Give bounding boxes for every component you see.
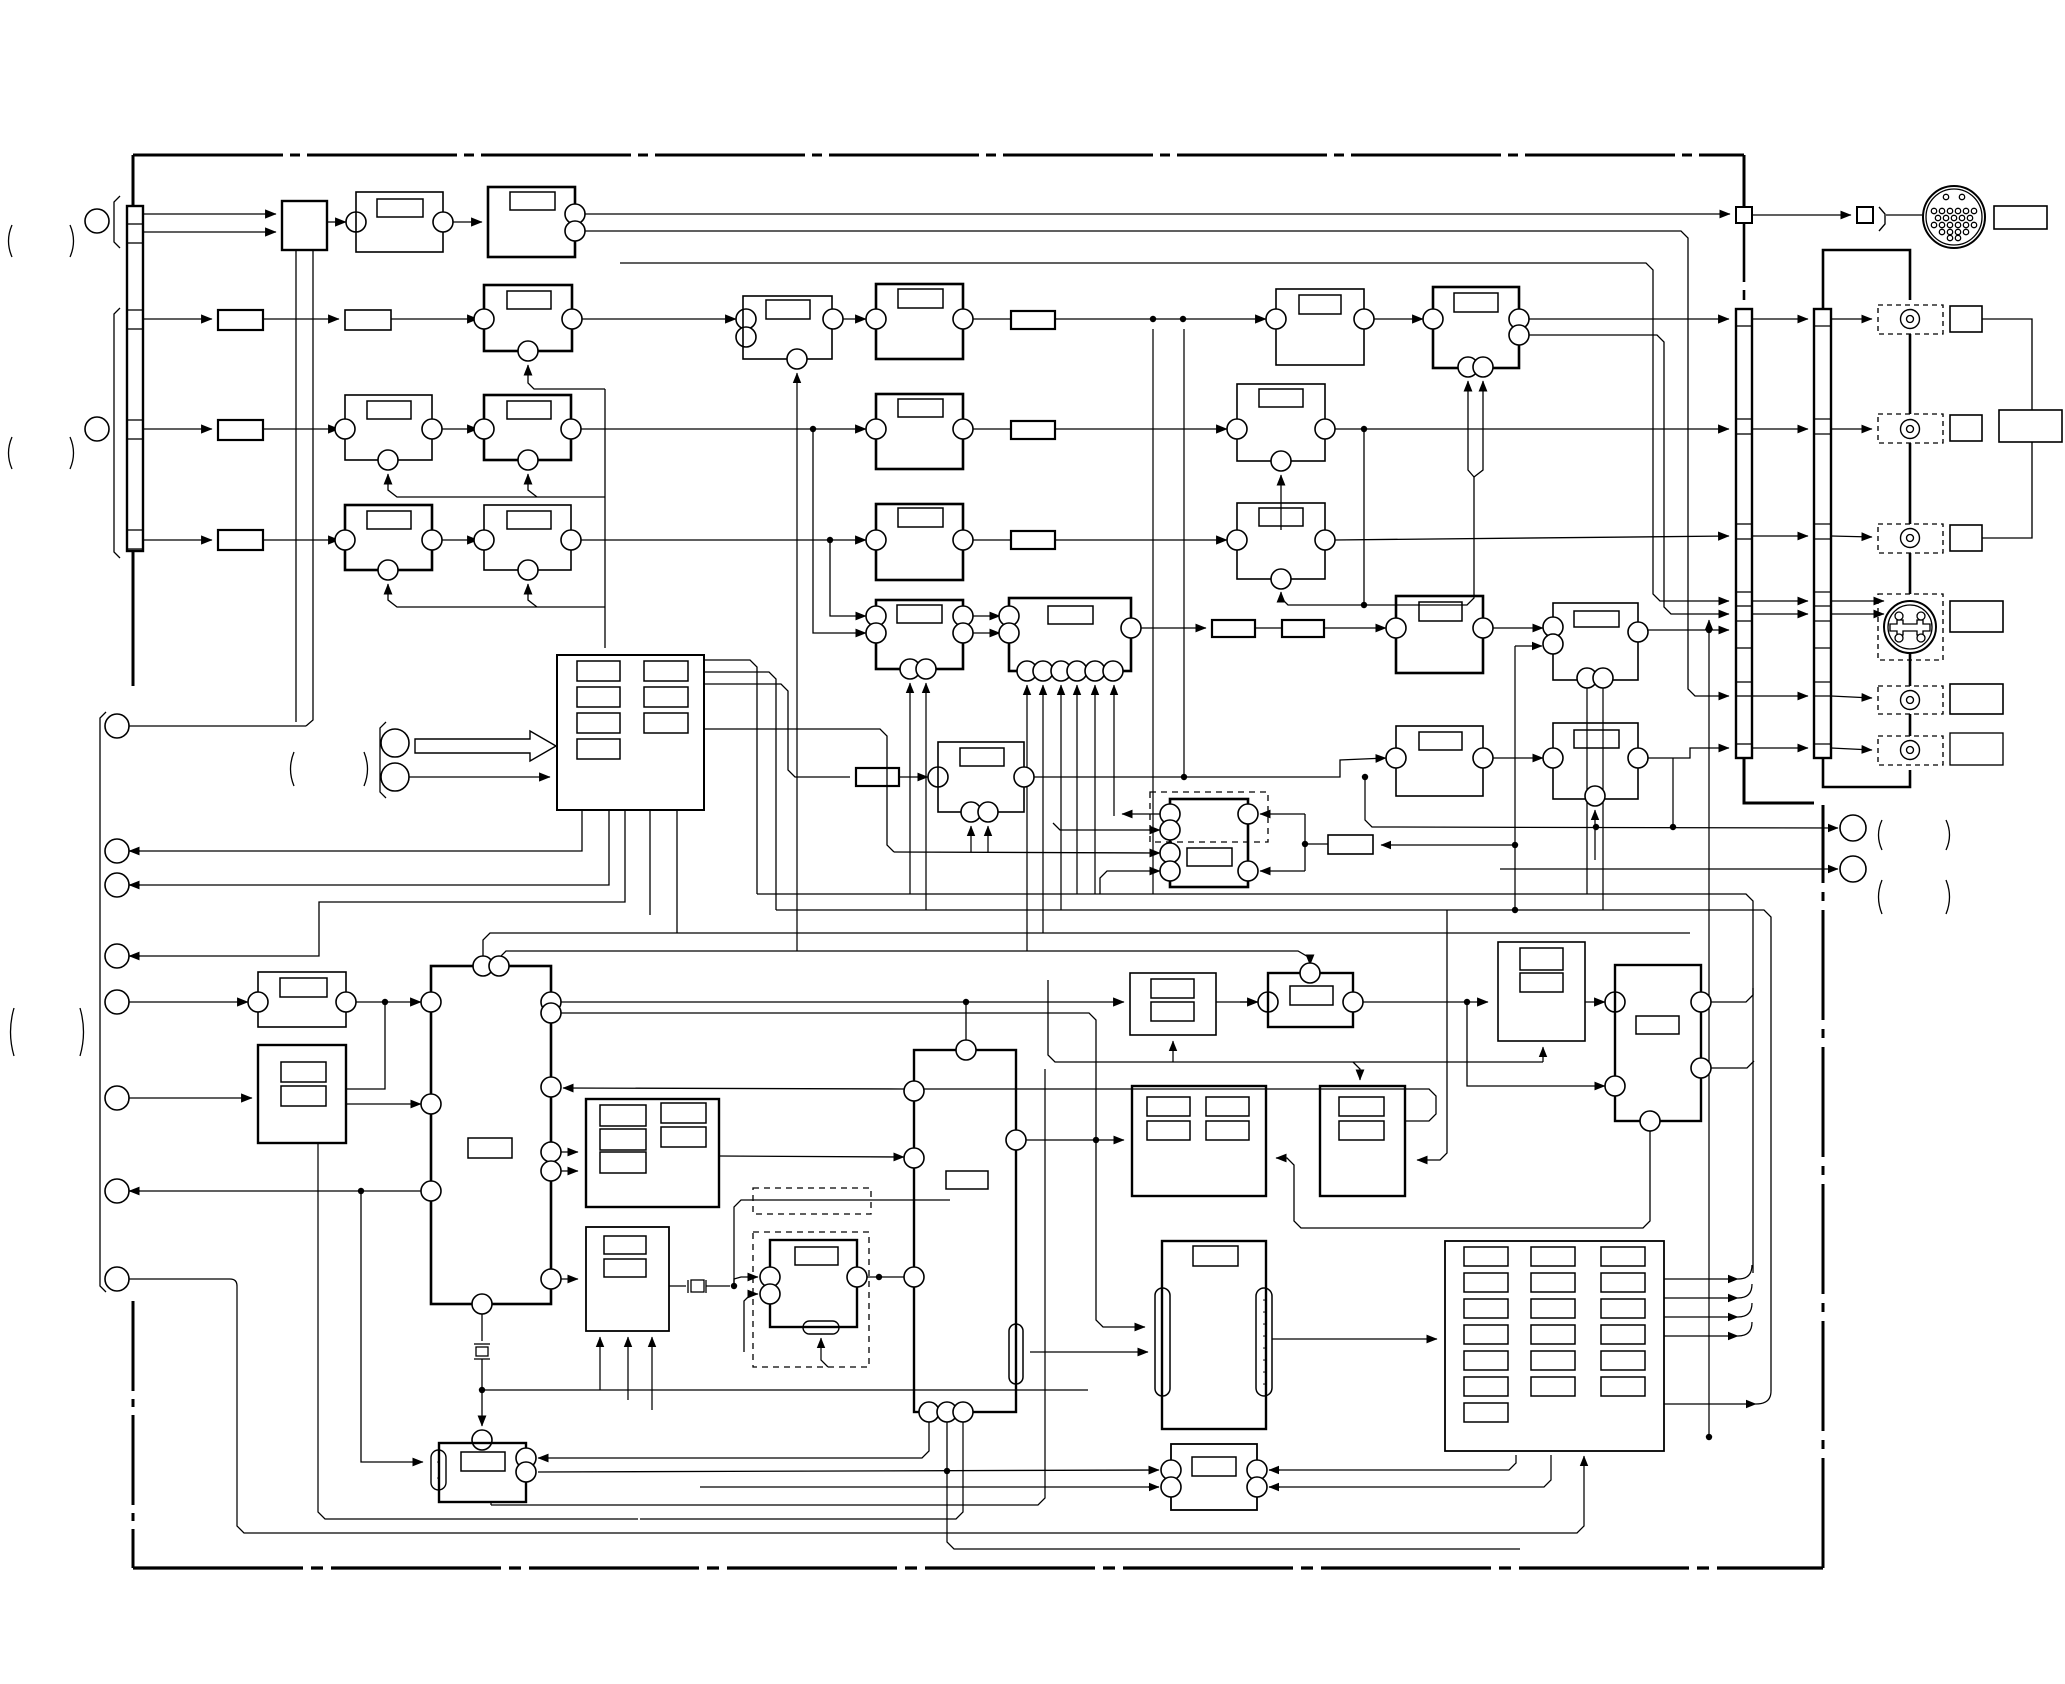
junction dot row3 right (1361, 426, 1367, 432)
wire y1002 cont (1216, 1001, 1258, 1003)
paren label bottom-left (11, 1008, 15, 1056)
wire E1 to filter (973, 428, 1011, 430)
wire tall r4 to GB (561, 1151, 578, 1153)
heavy jack bus bottom (1744, 758, 1814, 803)
pin circle C3 out2 (1509, 325, 1529, 345)
bracket connector group main (114, 308, 120, 558)
pin circle DB2 l2 (760, 1284, 780, 1304)
pin circle G4 out (1628, 622, 1648, 642)
pin circle B2 out (1354, 309, 1374, 329)
wire D1 to D2 (442, 428, 478, 430)
wire K2 out (1363, 1001, 1488, 1003)
wire bar2 to jack5 (1831, 748, 1872, 750)
pin circle F2 out (561, 530, 581, 550)
pin circle DB2 out (847, 1267, 867, 1287)
PCB outline border left upper (132, 155, 135, 206)
wire cpu pin5 bus (676, 810, 678, 933)
dashed jack4 box (1878, 686, 1943, 714)
wire G4 bottom a down (1586, 688, 1588, 894)
wire into KB pill left b (1030, 1351, 1148, 1353)
wire C1 bottom feed (796, 373, 798, 951)
pin circle K2 out (1343, 992, 1363, 1012)
wire y852 head (894, 852, 1160, 853)
pin circle F1 in (335, 530, 355, 550)
wire svideo C vertical (1708, 630, 1710, 1437)
small box row4 (218, 530, 263, 550)
pin circle tall right 2 (541, 1003, 561, 1023)
pill KB right (1256, 1288, 1272, 1396)
heavy link4 (1909, 653, 1912, 686)
pin circle B1 out (562, 309, 582, 329)
pin circle T2 out2 (1691, 1058, 1711, 1078)
edge connector CN left bar (127, 206, 143, 551)
block arrow key data (415, 731, 556, 761)
pin circle G6 out (1473, 748, 1493, 768)
heavy link1 (1909, 334, 1912, 414)
vertical wires below splitter (295, 250, 297, 722)
pin circle in8 (105, 1267, 129, 1291)
dashed svideo box (1878, 594, 1943, 660)
pin circle ant in (85, 417, 109, 441)
heavy jack bus top (1823, 250, 1910, 309)
pill J1 left (431, 1450, 446, 1490)
label box DIN (1994, 206, 2047, 229)
pin circle BX bottom a (919, 1402, 939, 1422)
pin circle G2 out (1121, 618, 1141, 638)
wire (263, 318, 339, 320)
pin circle BX bottom c (953, 1402, 973, 1422)
wire bar2 to jack1 (1831, 318, 1872, 320)
pin circle tall left in (421, 992, 441, 1012)
label box jack5 (1950, 733, 2003, 765)
pin circle K2 top (1300, 963, 1320, 983)
wire tall out2 y1013 (561, 1013, 1145, 1327)
label box wide right (1999, 410, 2062, 442)
block CPU system control (557, 655, 704, 810)
wire H2 loop (346, 1002, 385, 1089)
small box head bias (1328, 835, 1373, 854)
bar1 edge connector (1736, 309, 1752, 758)
RF splitter block (282, 201, 327, 250)
wire x947 drop (946, 1422, 948, 1471)
block TALL2 (1615, 965, 1701, 1121)
pin circle D2 in (474, 419, 494, 439)
paren label audio out b (1879, 880, 1883, 914)
pin circle C3 in (1423, 309, 1443, 329)
pin circle in7 (105, 1179, 129, 1203)
pin circle head l4 (1160, 861, 1180, 881)
pin circle E3 in (866, 530, 886, 550)
RCA jack 5 (1901, 741, 1920, 760)
wire row1 b (143, 231, 276, 233)
block A1 video amp (356, 192, 443, 252)
small box row2 b (345, 310, 391, 330)
wire from dot row4 to G1 (830, 540, 866, 616)
pin circle B1 in (474, 309, 494, 329)
block C3 bold (1433, 287, 1519, 368)
wire y1062 bus (1048, 980, 1543, 1062)
bracket key group (380, 722, 386, 798)
pin circle BX right1 (1006, 1130, 1026, 1150)
wire in6 to H2 (129, 1097, 252, 1099)
wire y605 to C3 bottom (1364, 477, 1474, 605)
pin circle T2 bottom (1640, 1111, 1660, 1131)
matrix outputs right (1664, 1278, 1738, 1280)
label box jack4 (1950, 684, 2003, 714)
wire into W1 bottom a (970, 826, 972, 852)
wire C2 to filter (973, 318, 1011, 320)
wire into head l4 (1100, 871, 1160, 894)
wire T2 out1 (1711, 988, 1753, 1002)
small box row3 filter (1011, 421, 1055, 439)
wire row4 (263, 539, 339, 541)
block D1 row3 (345, 395, 432, 460)
wire KB out (1272, 1338, 1437, 1340)
RCA jack 3 (1901, 529, 1920, 548)
small box row2 filter (1011, 311, 1055, 329)
block KB tape path (1162, 1241, 1266, 1429)
pin circle ctl2 (105, 839, 129, 863)
RCA jack 4 (1901, 691, 1920, 710)
pin circle head r1 (1238, 804, 1258, 824)
wire A2 out2 long (585, 231, 1729, 696)
PCB outline border right (chain) (1822, 805, 1825, 1568)
pin circle ctl4 (105, 944, 129, 968)
label box jack1 (1950, 306, 1982, 332)
wire tall r6 to JB2 (561, 1278, 578, 1280)
pin circle K2 in (1258, 992, 1278, 1012)
pin circle tall top a (473, 956, 493, 976)
wire row4 to E4 (1055, 539, 1227, 541)
pin circle BB l2 (1161, 1477, 1181, 1497)
pin circle G4 in b (1543, 634, 1563, 654)
wire tall in y1087 (563, 1088, 904, 1089)
block G6 (1396, 726, 1483, 796)
wire cpu tuner ctl (129, 725, 306, 727)
wire E3 to filter (973, 539, 1011, 541)
heavy link2 (1909, 443, 1912, 524)
wire head right dot (1302, 841, 1308, 847)
pin circle E3 out (953, 530, 973, 550)
block GB grid (586, 1099, 719, 1207)
RCA jack 1 (1901, 310, 1920, 329)
pin circle G3 out (1473, 618, 1493, 638)
pin circle DB2 l1 (760, 1267, 780, 1287)
pin circle BX left2 (904, 1148, 924, 1168)
wire to DB2 in a (734, 1277, 758, 1286)
block G3 bold (1396, 596, 1483, 673)
wire to DIN (1886, 214, 1922, 216)
wire row3 from bar (143, 428, 212, 430)
pin circle tall left 3 (421, 1181, 441, 1201)
wire bias in from G4 branch (1514, 646, 1516, 910)
wire audio out line y827 (1365, 777, 1838, 828)
pin circle D2 out (561, 419, 581, 439)
block E3 bold (876, 504, 963, 580)
wire K4 out (1585, 1001, 1605, 1003)
wire G1 to G2 a (973, 615, 1000, 617)
pin circle in6 (105, 1086, 129, 1110)
label box jack3 (1950, 525, 1982, 551)
wire G2 to switch boxes (1141, 627, 1206, 629)
pin circle D1 bottom (378, 450, 398, 470)
matrix output y1404 (1664, 1403, 1756, 1405)
wire fb row2 (528, 365, 605, 389)
pin circle E1 in (866, 419, 886, 439)
pill BX right (1009, 1324, 1023, 1384)
wire into head l2 (1053, 823, 1160, 830)
pin circle F1 bottom (378, 560, 398, 580)
wire vertical x1153 (1152, 329, 1154, 894)
block G4 (1553, 603, 1638, 680)
pin circles G2 bottom (1017, 661, 1037, 681)
small box row3 (218, 420, 263, 440)
wire square to DIN square (1752, 214, 1851, 216)
wire F1 to F2 (442, 539, 478, 541)
wire row4 from bar (143, 539, 212, 541)
bracket left lower group (100, 712, 106, 1292)
wire audio out line y869 (1500, 868, 1838, 870)
block D2 bold (484, 395, 571, 460)
wire DB2 out (867, 1276, 904, 1278)
wire jack1 chain right (1982, 319, 2032, 410)
block E2 (1237, 384, 1325, 461)
pin circle G1 in b (866, 623, 886, 643)
wire bar2 to svideo b (1831, 613, 1884, 615)
wire row3 (263, 428, 339, 430)
dashed box DX1 (753, 1188, 871, 1214)
wire y1062 into K3 (1353, 1062, 1360, 1080)
pin circle G1 bottom b (916, 659, 936, 679)
pin circle F2 in (474, 530, 494, 550)
wire H2 out (346, 1103, 421, 1105)
heavy link3 (1909, 553, 1912, 594)
pin circle T2 in (1605, 992, 1625, 1012)
wires into G2 bottom (1026, 685, 1028, 951)
wire feedback into C3 bottom (1468, 381, 1474, 477)
dashed box DX2 (753, 1232, 869, 1367)
pin circle G3 in (1386, 618, 1406, 638)
pin circle W1 bottom b (978, 802, 998, 822)
pin circle tall right 4 (541, 1142, 561, 1162)
pin circle G1 bottom a (900, 659, 920, 679)
bracket connector group top (114, 196, 120, 248)
bar2 edge connector (1814, 309, 1831, 758)
small square AV ctl (1857, 207, 1873, 223)
pill KB left (1155, 1288, 1170, 1396)
wire cpu pin1 down (129, 810, 582, 851)
block G5 (1553, 723, 1638, 799)
block K1big (1132, 1086, 1266, 1196)
wire A1 to A2 (453, 221, 482, 223)
pin circle B2 in (1266, 309, 1286, 329)
wires into G1 bottom (909, 683, 911, 894)
pin circle head r2 (1238, 861, 1258, 881)
dashed jack1 box (1878, 305, 1943, 334)
dashed jack5 box (1878, 736, 1943, 765)
wire cpu bundle b (704, 672, 776, 910)
wire bottom bus x318 (318, 1143, 638, 1519)
pin circle tall right 5 (541, 1161, 561, 1181)
wire dashed loop up (734, 1200, 950, 1286)
pin circle BB l1 (1161, 1460, 1181, 1480)
pin circle G2 in b (999, 623, 1019, 643)
wire E4 bottom feed (1281, 592, 1364, 605)
pin circle in5 (105, 990, 129, 1014)
pin circle G2 in a (999, 606, 1019, 626)
crystal X2 (687, 1280, 689, 1293)
wire BX right1 junction (1026, 1139, 1124, 1141)
block JB2 (586, 1227, 669, 1331)
small box G2b (1282, 620, 1324, 637)
wire row2 from bar (143, 318, 212, 320)
wire splitter out (327, 221, 346, 223)
border segment below junction square (1743, 223, 1746, 300)
block J1 bold (439, 1443, 526, 1502)
pin circle C3 bottom b (1473, 357, 1493, 377)
wire row3 to bar (1335, 428, 1729, 430)
pin circle key in b (381, 763, 409, 791)
pill DB2 bottom (803, 1321, 839, 1334)
wire GB to BX (719, 1156, 904, 1157)
wire cpu pin2 down (129, 810, 609, 885)
wire G6 to G5 (1493, 757, 1543, 759)
wire to tallbox2 left2 (1467, 1002, 1605, 1086)
wire C1 to C2 (843, 318, 866, 320)
wire BB r2 to matrix (1269, 1455, 1551, 1487)
PCB outline border (chain line) top (133, 154, 1744, 157)
pin circle A1 in (346, 212, 366, 232)
pin circle H1 out (336, 992, 356, 1012)
pin circle H1 in (248, 992, 268, 1012)
wire cpu right port (704, 729, 894, 852)
pin circle E2 bottom (1271, 451, 1291, 471)
block G1 bold (876, 600, 963, 669)
wire fb row4 (388, 584, 605, 607)
wire row3 to E2 (1055, 428, 1227, 430)
pin circle out R (1840, 815, 1866, 841)
PCB outline border right top segment (1743, 155, 1746, 207)
pin circle F2 bottom (518, 560, 538, 580)
pin circle BX top (956, 1040, 976, 1060)
wire head out up (1122, 813, 1160, 815)
pin circle D2 bottom (518, 450, 538, 470)
pin circle tall top b (489, 956, 509, 976)
wire row4 to bar (1335, 536, 1729, 540)
wire bar2 to jack4 (1831, 696, 1872, 698)
bus line y910 (776, 910, 1771, 1391)
pin circle E2 out (1315, 419, 1335, 439)
small box W0 bold (856, 768, 899, 786)
pin circle C2 out (953, 309, 973, 329)
wire x963 drop (640, 1422, 963, 1519)
wire in5 to H1 (129, 1001, 248, 1003)
block K2 bold (1268, 973, 1353, 1027)
block W1 (938, 742, 1024, 812)
wire K3 out loop (918, 1089, 1436, 1121)
pin circle ctl1 (105, 714, 129, 738)
pin circle D1 out (422, 419, 442, 439)
label box jack2 (1950, 415, 1982, 441)
wire vertical x605 (604, 389, 606, 648)
wire row3 long (581, 428, 866, 430)
block H2 bold (258, 1045, 346, 1143)
junction square row1 (1736, 207, 1752, 223)
block G2 bold (1009, 598, 1131, 671)
pin circle T2 left2 (1605, 1076, 1625, 1096)
pin circle out L (1840, 856, 1866, 882)
pin circle G5 out (1628, 748, 1648, 768)
pin circle tall right 6 (541, 1269, 561, 1289)
block H1 (258, 972, 346, 1027)
pin circle BB r1 (1247, 1460, 1267, 1480)
pin circle J1 top (472, 1430, 492, 1450)
wire G3 to G4 (1493, 627, 1543, 629)
pin circle ctl3 (105, 873, 129, 897)
wire K3 in (1417, 910, 1447, 1160)
pin circle C1 in a (736, 309, 756, 329)
dashed box head upper (1150, 792, 1268, 842)
wire J1 r1 feed (538, 1422, 929, 1458)
wire to DB2 in b (744, 1294, 758, 1352)
block F1 row4 (345, 505, 432, 570)
wire bottom bus x237 (129, 1278, 230, 1280)
pin circle tall right 1 (541, 992, 561, 1012)
block C2 bold (876, 284, 963, 359)
pin circle J1 r1 (516, 1448, 536, 1468)
wire cpu pin3 route (129, 810, 625, 956)
wire W1 out (1034, 758, 1386, 777)
wire fb row3 (388, 474, 605, 497)
wire cpu bundle c (704, 684, 850, 777)
pin circle key in a (381, 729, 409, 757)
wire x361 to osc box (361, 1191, 423, 1462)
bracket small (1879, 207, 1885, 231)
pin circle G4 bottom b (1593, 668, 1613, 688)
wire G4 out (1648, 629, 1729, 631)
dashed jack3 box (1878, 524, 1943, 553)
block head amp bold (1170, 799, 1248, 887)
bus line y951 (499, 951, 1310, 966)
pin circle G6 in (1386, 748, 1406, 768)
junction dots row2 (1150, 316, 1156, 322)
wire vertical x1184 (1183, 329, 1185, 777)
block E1 bold (876, 394, 963, 469)
small box row2 a (218, 310, 263, 330)
pin circle D1 in (335, 419, 355, 439)
block K4 servo (1498, 942, 1585, 1041)
wire cpu bundle a (704, 660, 757, 894)
pin circle C1 in b (736, 327, 756, 347)
pin circle C2 in (866, 309, 886, 329)
wire BB l2 feed (700, 1486, 1159, 1488)
pin circle BX left1 (904, 1081, 924, 1101)
wire from dot row3 to G1 (813, 429, 866, 633)
pin circle T2 out1 (1691, 992, 1711, 1012)
wire cpu pin4 bus (649, 810, 651, 915)
pin circle G1 out b (953, 623, 973, 643)
pin circle BX bottom b (937, 1402, 957, 1422)
RCA jack 2 (1901, 420, 1920, 439)
block MATRIX (1445, 1241, 1664, 1451)
wire branch x1673 (1672, 758, 1674, 827)
wire G1 to G2 b (973, 632, 1000, 634)
pin circle W1 out (1014, 767, 1034, 787)
block A2 bold (488, 187, 575, 257)
block C1 (743, 296, 832, 359)
wire bar2 to jack3 (1831, 536, 1872, 537)
paren label left top (9, 225, 13, 257)
